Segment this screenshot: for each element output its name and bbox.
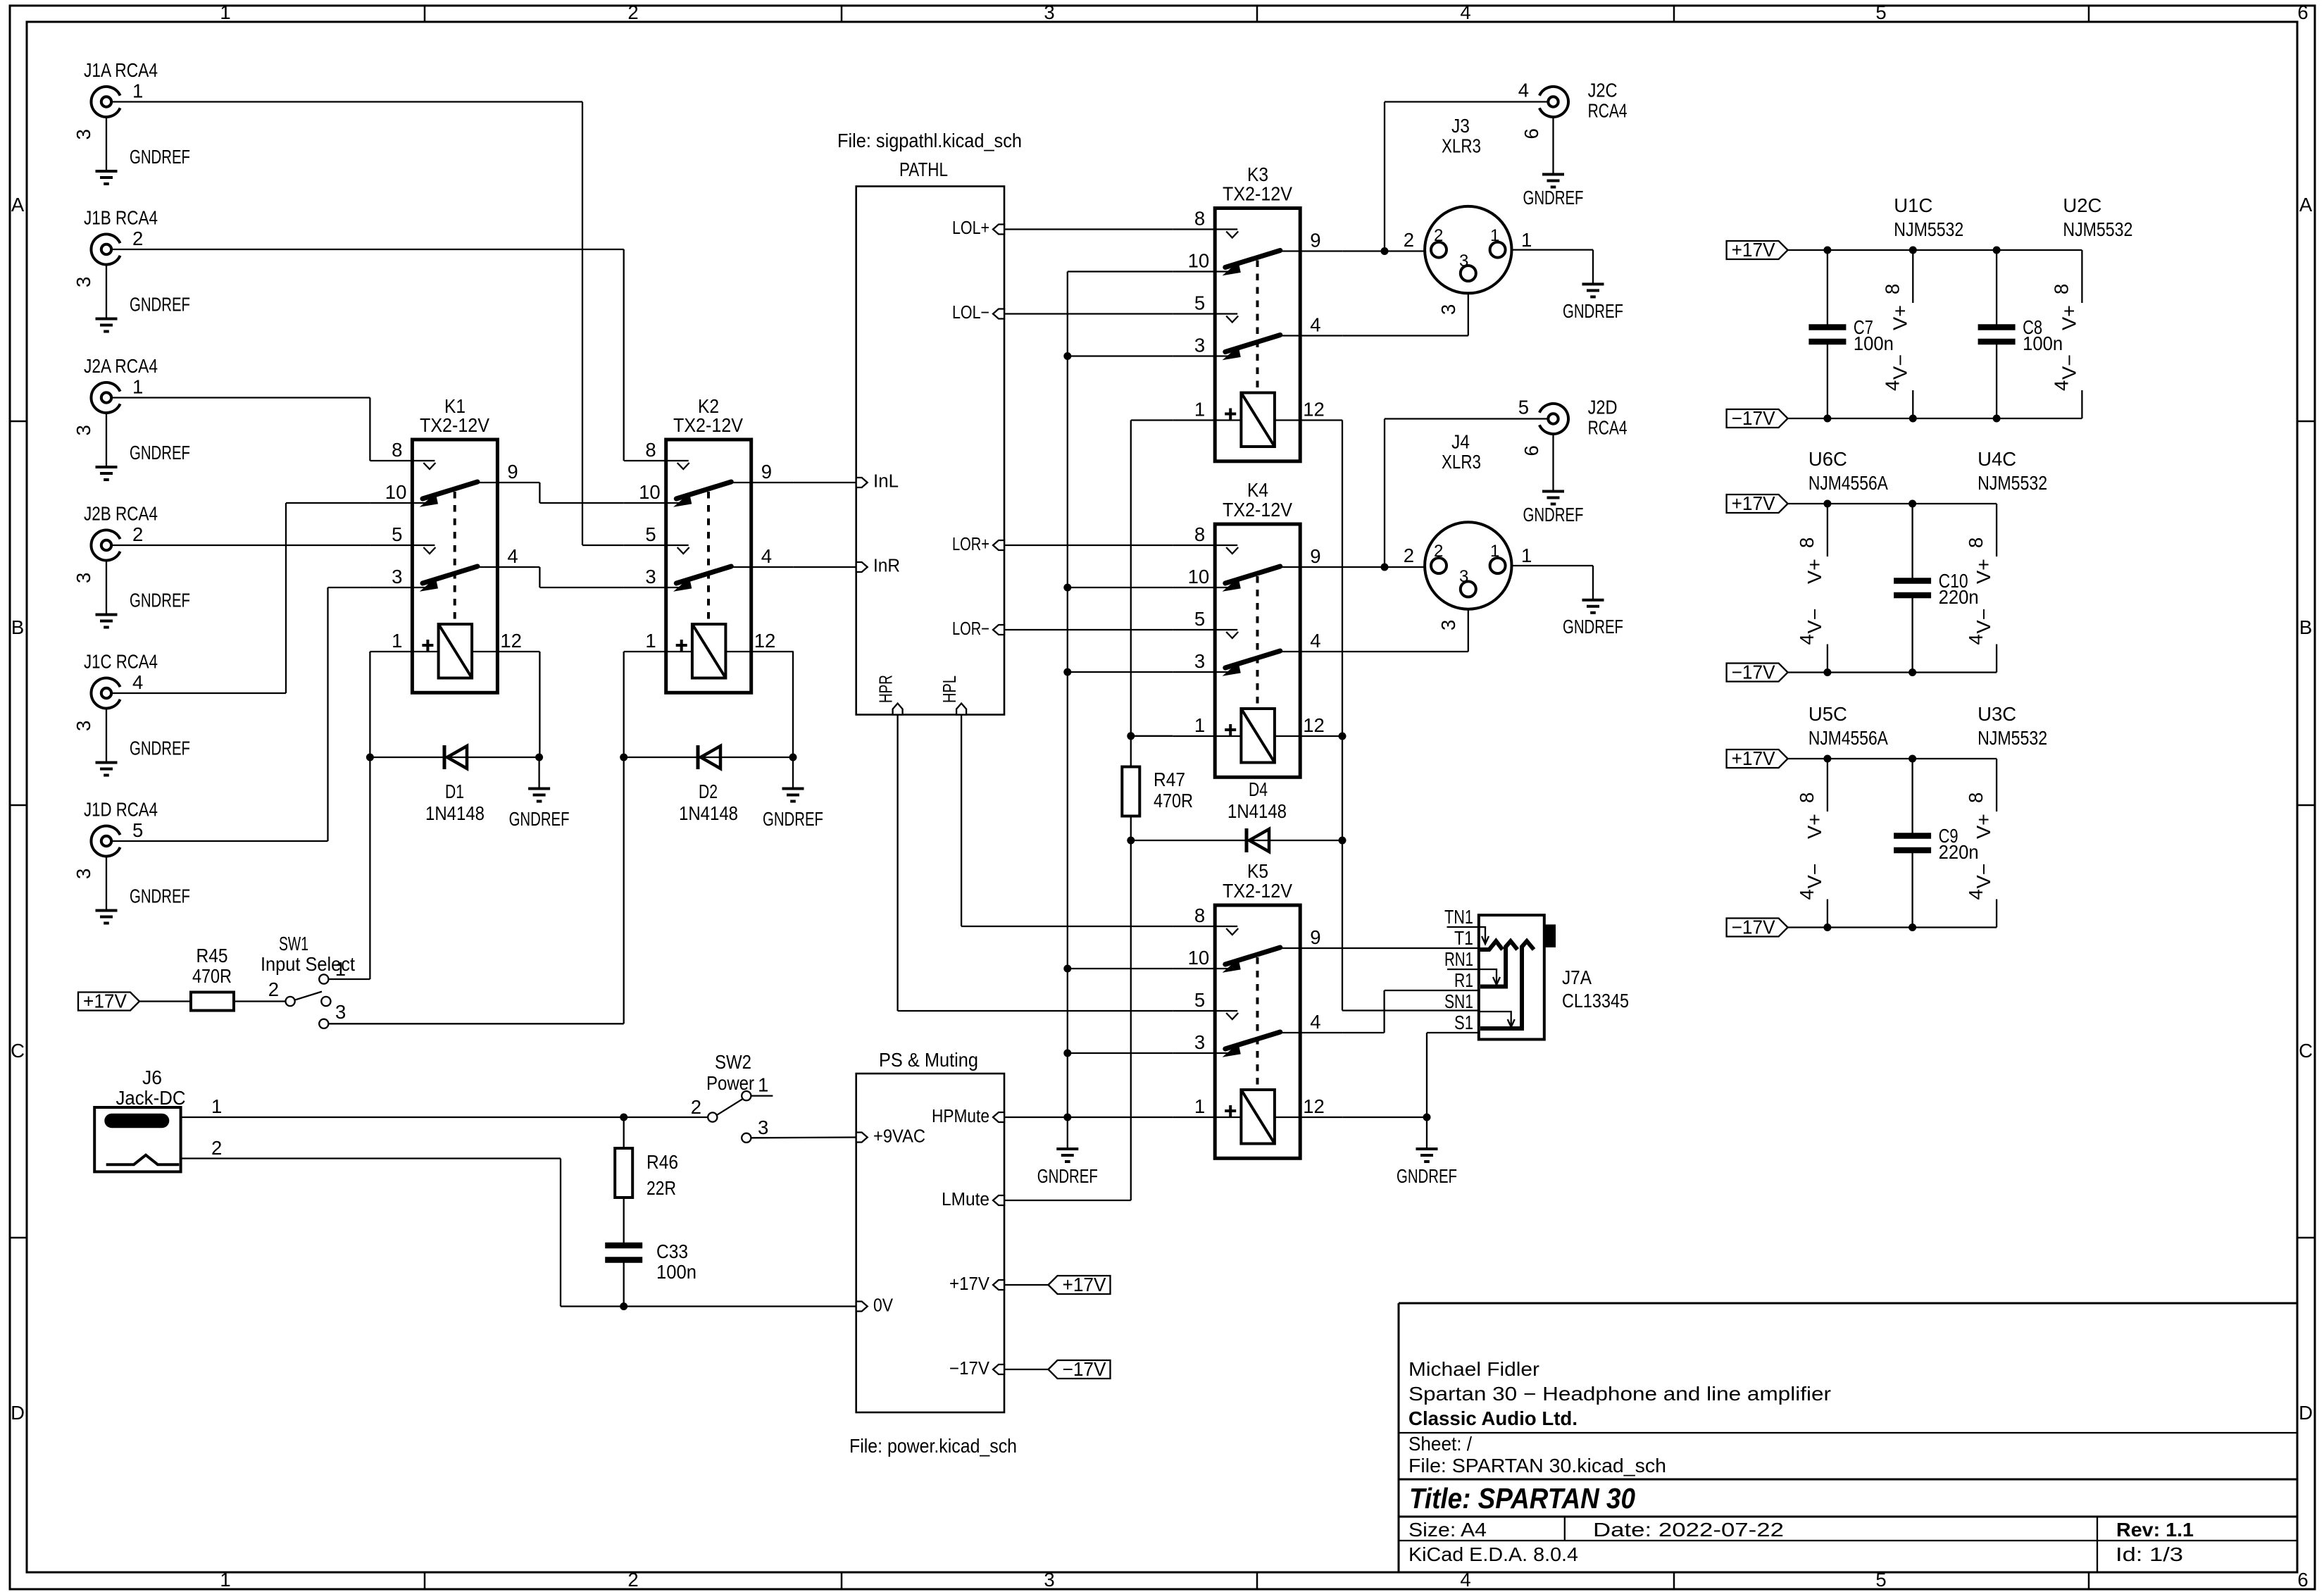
svg-text:4: 4 <box>1310 630 1320 652</box>
op-amp U4C power unit NJM5532 <box>1965 448 2047 673</box>
svg-text:GNDREF: GNDREF <box>763 808 823 830</box>
svg-text:4: 4 <box>507 545 518 567</box>
svg-text:2: 2 <box>627 1569 638 1591</box>
wire K3 pin1 to LMute vertical <box>1131 419 1173 421</box>
svg-text:+17V: +17V <box>1063 1274 1107 1295</box>
svg-text:2: 2 <box>1404 545 1414 566</box>
wire J2C pin4 to K3 pin9 net <box>1381 102 1549 256</box>
wire K1 pin9 to K2 pin10 <box>539 483 623 503</box>
svg-text:J1D RCA4: J1D RCA4 <box>84 799 158 821</box>
svg-text:V+: V+ <box>1973 559 1994 584</box>
svg-text:CL13345: CL13345 <box>1562 990 1629 1012</box>
svg-text:Date: 2022-07-22: Date: 2022-07-22 <box>1593 1519 1784 1541</box>
svg-text:LOR+: LOR+ <box>952 535 989 554</box>
svg-text:9: 9 <box>507 461 518 483</box>
svg-text:NJM4556A: NJM4556A <box>1808 472 1889 494</box>
svg-text:NJM4556A: NJM4556A <box>1808 727 1889 749</box>
svg-text:1: 1 <box>335 958 346 980</box>
svg-text:J2A RCA4: J2A RCA4 <box>84 355 158 377</box>
svg-text:TX2-12V: TX2-12V <box>420 414 490 436</box>
wire K2 pin12 to GNDREF <box>792 652 794 757</box>
svg-text:8: 8 <box>1965 537 1987 548</box>
svg-text:J1C RCA4: J1C RCA4 <box>84 651 158 673</box>
svg-text:3: 3 <box>392 566 402 587</box>
svg-text:Id: 1/3: Id: 1/3 <box>2116 1543 2183 1565</box>
svg-text:SW1: SW1 <box>279 933 308 954</box>
wire XLR J4 pin3 to K4 pin4 <box>1342 609 1468 652</box>
wire LOL+ to K3 pin8 <box>1004 228 1173 230</box>
svg-text:2: 2 <box>1434 226 1443 245</box>
svg-text:Classic Audio Ltd.: Classic Audio Ltd. <box>1408 1407 1578 1429</box>
svg-text:File: power.kicad_sch: File: power.kicad_sch <box>849 1435 1017 1457</box>
svg-text:2: 2 <box>1434 542 1443 561</box>
svg-text:R45: R45 <box>196 945 228 966</box>
relay K5 <box>1173 860 1342 1158</box>
wire K5 pin10 to mute bus <box>1068 968 1173 969</box>
svg-text:InR: InR <box>873 556 900 576</box>
svg-text:J1A RCA4: J1A RCA4 <box>84 59 158 81</box>
svg-text:4: 4 <box>761 545 772 567</box>
svg-text:D4: D4 <box>1249 778 1268 800</box>
svg-text:6: 6 <box>2297 1569 2308 1591</box>
svg-text:3: 3 <box>758 1117 768 1138</box>
wire J6 pin1 to SW2 pin2 <box>181 1114 708 1121</box>
svg-text:LMute: LMute <box>942 1190 989 1209</box>
ground GNDREF at mute bus <box>1037 1117 1098 1187</box>
svg-text:V−: V− <box>1973 609 1994 634</box>
svg-text:TX2-12V: TX2-12V <box>1223 880 1293 902</box>
svg-text:D1: D1 <box>445 781 464 802</box>
svg-text:3: 3 <box>1437 304 1459 315</box>
svg-text:1: 1 <box>645 630 656 652</box>
svg-text:8: 8 <box>1194 208 1205 230</box>
svg-text:U1C: U1C <box>1894 194 1932 216</box>
svg-text:3: 3 <box>73 573 94 583</box>
svg-text:3: 3 <box>645 566 656 587</box>
svg-text:NJM5532: NJM5532 <box>1894 218 1963 240</box>
svg-text:J2B RCA4: J2B RCA4 <box>84 503 158 525</box>
svg-text:2: 2 <box>132 523 143 545</box>
resistor R45 470R <box>139 945 286 1011</box>
net label RN1 <box>1444 948 1479 970</box>
svg-text:GNDREF: GNDREF <box>130 442 190 464</box>
svg-text:8: 8 <box>1796 537 1818 548</box>
svg-text:2: 2 <box>627 1 638 23</box>
op-amp U6C power unit NJM4556A <box>1796 448 1889 673</box>
svg-text:8: 8 <box>1194 523 1205 545</box>
net label S1 <box>1454 1012 1473 1033</box>
power flag -17V rail group 2 <box>1727 661 1788 683</box>
svg-text:2: 2 <box>211 1137 222 1159</box>
svg-text:5: 5 <box>1194 989 1205 1011</box>
svg-text:8: 8 <box>392 439 402 461</box>
svg-text:10: 10 <box>1188 250 1210 272</box>
RCA connector J1C <box>73 651 190 776</box>
wire HPL to K5 pin8 <box>961 715 1173 927</box>
svg-text:220n: 220n <box>1939 841 1979 863</box>
sheet pin LOL- <box>952 303 1004 323</box>
svg-text:470R: 470R <box>1154 790 1193 811</box>
svg-text:1N4148: 1N4148 <box>425 802 485 824</box>
wire K3 pin12 to K4 pin12 D4 and SN1 <box>1339 421 1479 1011</box>
svg-text:1: 1 <box>1194 714 1205 736</box>
svg-text:470R: 470R <box>192 965 232 987</box>
svg-text:GNDREF: GNDREF <box>130 885 190 907</box>
svg-text:−17V: −17V <box>1732 661 1776 683</box>
sheet pin LMute <box>942 1190 1004 1209</box>
svg-text:V+: V+ <box>1804 559 1825 584</box>
svg-text:R46: R46 <box>646 1151 678 1173</box>
svg-text:B: B <box>2299 616 2312 638</box>
svg-text:3: 3 <box>73 277 94 287</box>
svg-text:V+: V+ <box>1804 814 1825 839</box>
svg-text:1: 1 <box>1194 1095 1205 1117</box>
svg-text:TX2-12V: TX2-12V <box>673 414 744 436</box>
wire J2A pin1 to K1 pin8 <box>111 398 370 461</box>
capacitor C10 220n <box>1894 504 1979 673</box>
svg-text:8: 8 <box>1194 904 1205 926</box>
wire K3 pin9 to XLR J3 pin2 <box>1342 250 1425 251</box>
svg-text:3: 3 <box>335 1001 346 1023</box>
power flag -17V rail group 3 <box>1727 916 1788 938</box>
svg-text:R1: R1 <box>1454 969 1473 991</box>
wire LMute to coil vertical <box>1004 1200 1131 1201</box>
capacitor C33 100n <box>605 1198 696 1307</box>
svg-text:RCA4: RCA4 <box>1588 100 1628 122</box>
svg-text:NJM5532: NJM5532 <box>1978 472 2047 494</box>
svg-text:1: 1 <box>211 1095 222 1117</box>
svg-text:XLR3: XLR3 <box>1442 451 1481 473</box>
svg-text:2: 2 <box>132 228 143 249</box>
svg-text:100n: 100n <box>1854 332 1894 354</box>
svg-text:GNDREF: GNDREF <box>1037 1165 1098 1187</box>
wire jack S1 to GNDREF <box>1427 1033 1479 1117</box>
svg-text:TN1: TN1 <box>1444 906 1473 928</box>
sheet pin InL <box>856 472 899 492</box>
svg-text:XLR3: XLR3 <box>1442 135 1481 157</box>
wire K5 pin9 to jack T1 <box>1342 947 1479 949</box>
relay K1 <box>370 395 539 692</box>
svg-text:100n: 100n <box>656 1261 696 1283</box>
wire J2B pin1 to K1 pin5 <box>111 545 370 546</box>
wire K4 pin9 to XLR J4 pin2 <box>1342 566 1425 568</box>
svg-text:V−: V− <box>1804 609 1825 634</box>
ground GNDREF at J4 pin1 <box>1563 600 1623 638</box>
wire K1 pin12 to GNDREF <box>539 652 540 757</box>
svg-text:3: 3 <box>1194 335 1205 356</box>
svg-text:−17V: −17V <box>949 1359 989 1379</box>
diode D2 1N4148 <box>620 745 796 824</box>
svg-text:220n: 220n <box>1939 586 1979 608</box>
svg-text:GNDREF: GNDREF <box>1563 300 1623 322</box>
wire HPR to K5 pin5 <box>898 715 1173 1012</box>
wire K4 pin1 to LMute vertical <box>1131 735 1173 737</box>
switch SW2 Power <box>691 1051 773 1143</box>
relay K3 <box>1173 163 1342 461</box>
RCA connector J2A <box>73 355 190 480</box>
svg-text:GNDREF: GNDREF <box>130 146 190 168</box>
svg-text:1: 1 <box>132 80 143 102</box>
svg-text:3: 3 <box>1459 567 1468 586</box>
RCA connector J2C <box>1518 80 1628 209</box>
sheet pin LOL+ <box>952 218 1004 238</box>
svg-text:1: 1 <box>1194 399 1205 421</box>
svg-text:9: 9 <box>1310 926 1320 948</box>
wire K5 pin12 to GNDREF junction <box>1342 1114 1430 1150</box>
svg-text:C: C <box>11 1040 25 1062</box>
svg-text:1N4148: 1N4148 <box>1227 800 1287 822</box>
svg-text:J1B RCA4: J1B RCA4 <box>84 207 158 229</box>
sheet pin +17V output <box>949 1274 1004 1294</box>
svg-text:4: 4 <box>1460 1 1470 23</box>
svg-text:100n: 100n <box>2023 332 2063 354</box>
svg-text:LOL−: LOL− <box>952 303 989 323</box>
wire LOR+ to K4 pin8 <box>1004 545 1173 546</box>
svg-text:TX2-12V: TX2-12V <box>1223 183 1293 205</box>
svg-text:4: 4 <box>1310 1011 1320 1033</box>
wire +17V rail <box>1788 500 1997 508</box>
power flag +17V rail group 3 <box>1727 747 1788 769</box>
power flag +17V from PS <box>1004 1274 1111 1295</box>
wire K1 pin1 to SW1 pin1 <box>328 652 370 979</box>
op-amp U3C power unit NJM5532 <box>1965 703 2047 928</box>
svg-text:NJM5532: NJM5532 <box>1978 727 2047 749</box>
wire SW2 pin3 to +9VAC <box>751 1136 856 1138</box>
svg-text:V−: V− <box>1889 354 1911 380</box>
svg-text:22R: 22R <box>646 1177 676 1199</box>
hierarchical sheet PATHL sigpathl.kicad_sch <box>837 130 1022 715</box>
XLR connector J3 <box>1404 115 1532 315</box>
svg-text:V+: V+ <box>1973 814 1994 839</box>
svg-text:1: 1 <box>392 630 402 652</box>
wire -17V rail <box>1788 924 1997 931</box>
wire XLR J4 pin1 to GNDREF <box>1512 566 1594 600</box>
RCA connector J1B <box>73 207 190 332</box>
power flag -17V from PS <box>1004 1358 1111 1380</box>
svg-text:6: 6 <box>2297 1 2308 23</box>
wire +17V rail <box>1788 755 1997 763</box>
relay K2 <box>624 395 794 692</box>
title block <box>1399 1303 2297 1572</box>
wire K3 pin3 to mute bus <box>1068 355 1173 356</box>
sheet pin HPR <box>877 675 903 715</box>
svg-text:D2: D2 <box>699 781 718 802</box>
svg-text:12: 12 <box>500 630 522 652</box>
svg-text:5: 5 <box>132 819 143 841</box>
svg-text:5: 5 <box>1875 1 1886 23</box>
svg-text:GNDREF: GNDREF <box>130 590 190 611</box>
wire K1 pin4 to K2 pin3 <box>539 567 623 587</box>
svg-text:12: 12 <box>1303 399 1325 421</box>
svg-text:U5C: U5C <box>1808 703 1847 725</box>
svg-text:4: 4 <box>1310 314 1320 336</box>
svg-text:InL: InL <box>873 472 899 492</box>
resistor R46 22R <box>615 1117 678 1199</box>
svg-text:4: 4 <box>1796 889 1818 900</box>
svg-text:4: 4 <box>1965 889 1987 900</box>
svg-text:Power: Power <box>706 1072 754 1094</box>
sheet pin InR <box>856 556 900 576</box>
svg-text:GNDREF: GNDREF <box>1563 616 1623 638</box>
svg-text:−17V: −17V <box>1732 916 1776 938</box>
capacitor C8 100n <box>1978 250 2063 418</box>
sheet pin LOR+ <box>952 535 1004 554</box>
svg-text:B: B <box>11 616 24 638</box>
wire K2 pin4 to sheet pin InR <box>794 566 856 568</box>
svg-text:5: 5 <box>392 523 402 545</box>
op-amp U1C power unit NJM5532 <box>1881 194 1963 418</box>
svg-text:LOR−: LOR− <box>952 619 989 639</box>
svg-text:12: 12 <box>1303 1095 1325 1117</box>
svg-text:8: 8 <box>1965 792 1987 803</box>
svg-text:8: 8 <box>1881 284 1903 294</box>
ground GNDREF at J3 pin1 <box>1563 284 1623 322</box>
sheet pin -17V output <box>949 1359 1004 1379</box>
svg-text:1N4148: 1N4148 <box>679 802 738 824</box>
svg-text:Jack-DC: Jack-DC <box>116 1087 186 1109</box>
capacitor C7 100n <box>1808 250 1894 418</box>
svg-text:SN1: SN1 <box>1444 990 1473 1012</box>
svg-text:A: A <box>11 194 25 216</box>
svg-text:V+: V+ <box>1889 305 1911 330</box>
net label R1 <box>1454 969 1473 991</box>
power flag +17V at R45 <box>78 990 139 1012</box>
svg-text:J4: J4 <box>1451 431 1470 453</box>
svg-text:V+: V+ <box>2058 305 2080 330</box>
svg-text:KiCad E.D.A. 8.0.4: KiCad E.D.A. 8.0.4 <box>1408 1543 1578 1565</box>
svg-text:U4C: U4C <box>1978 448 2016 470</box>
svg-text:J2C: J2C <box>1588 80 1618 101</box>
wire J1B pin1 to K2 pin8 <box>111 249 624 461</box>
sheet pin 0V <box>856 1296 893 1316</box>
RCA connector J1A <box>73 59 190 184</box>
svg-text:V−: V− <box>1973 864 1994 889</box>
svg-text:12: 12 <box>754 630 776 652</box>
wire K5 pin3 to mute bus <box>1068 1052 1173 1054</box>
svg-text:5: 5 <box>1194 292 1205 314</box>
svg-text:HPL: HPL <box>940 676 960 703</box>
wire +17V rail <box>1788 247 2082 254</box>
svg-text:8: 8 <box>645 439 656 461</box>
wire K3 pin10 to mute bus <box>1068 270 1173 272</box>
svg-text:−17V: −17V <box>1063 1358 1107 1380</box>
svg-text:2: 2 <box>691 1096 701 1118</box>
op-amp U5C power unit NJM4556A <box>1796 703 1889 928</box>
svg-text:File: SPARTAN 30.kicad_sch: File: SPARTAN 30.kicad_sch <box>1408 1455 1666 1476</box>
svg-text:K4: K4 <box>1247 479 1268 501</box>
svg-text:TX2-12V: TX2-12V <box>1223 499 1293 521</box>
svg-text:D: D <box>11 1402 25 1424</box>
svg-text:3: 3 <box>1194 650 1205 672</box>
svg-text:Title: SPARTAN 30: Title: SPARTAN 30 <box>1409 1482 1635 1515</box>
svg-text:4: 4 <box>2050 380 2072 391</box>
wire K2 pin1 to SW1 pin3 <box>328 652 623 1024</box>
svg-text:8: 8 <box>2050 284 2072 294</box>
wire K5 pin4 to jack R1 <box>1342 990 1479 1033</box>
hierarchical sheet PS & Muting power.kicad_sch <box>849 1049 1017 1457</box>
svg-text:R47: R47 <box>1154 769 1185 790</box>
net label T1 <box>1454 927 1473 949</box>
ground GNDREF at jack <box>1397 1149 1457 1187</box>
svg-text:+17V: +17V <box>1732 492 1776 514</box>
wire J2D pin5 to K4 pin9 net <box>1381 419 1549 571</box>
svg-text:Sheet: /: Sheet: / <box>1408 1433 1472 1455</box>
svg-text:HPMute: HPMute <box>932 1107 989 1126</box>
svg-text:GNDREF: GNDREF <box>1397 1165 1457 1187</box>
svg-text:GNDREF: GNDREF <box>509 808 570 830</box>
svg-text:1: 1 <box>220 1569 230 1591</box>
wire K2 pin9 to sheet pin InL <box>794 482 856 483</box>
svg-text:9: 9 <box>1310 545 1320 567</box>
sheet pin HPMute <box>932 1107 1004 1126</box>
svg-text:K5: K5 <box>1247 860 1268 882</box>
svg-text:+17V: +17V <box>949 1274 989 1294</box>
wire J1A pin1 to K2 pin5 <box>111 102 624 546</box>
net label SN1 <box>1444 990 1473 1012</box>
svg-text:Spartan 30 − Headphone and lin: Spartan 30 − Headphone and line amplifie… <box>1408 1383 1831 1405</box>
svg-text:3: 3 <box>1044 1569 1054 1591</box>
wire J1C pin1 to K1 pin10 <box>111 503 370 693</box>
svg-text:SW2: SW2 <box>715 1051 751 1073</box>
svg-text:9: 9 <box>1310 230 1320 251</box>
coil drive vertical LMute net with resistor R47 <box>1127 421 1135 1201</box>
svg-text:Michael Fidler: Michael Fidler <box>1408 1358 1539 1380</box>
svg-text:2: 2 <box>268 978 279 1000</box>
svg-text:U2C: U2C <box>2063 194 2101 216</box>
svg-text:RCA4: RCA4 <box>1588 417 1628 439</box>
ground GNDREF at D1 <box>509 757 570 830</box>
svg-text:1: 1 <box>220 1 230 23</box>
svg-text:5: 5 <box>1518 397 1529 418</box>
headphone jack J7A CL13345 <box>1479 915 1629 1039</box>
svg-text:A: A <box>2299 194 2313 216</box>
svg-text:+9VAC: +9VAC <box>873 1127 925 1147</box>
svg-text:3: 3 <box>73 721 94 731</box>
svg-text:J3: J3 <box>1451 115 1470 137</box>
svg-text:3: 3 <box>1044 1 1054 23</box>
svg-text:GNDREF: GNDREF <box>130 294 190 316</box>
RCA connector J2B <box>73 503 190 628</box>
svg-text:GNDREF: GNDREF <box>1523 187 1584 209</box>
svg-text:GNDREF: GNDREF <box>1523 504 1584 526</box>
RCA connector J1D <box>73 799 190 924</box>
ground GNDREF at D2 <box>763 757 823 830</box>
svg-text:U3C: U3C <box>1978 703 2016 725</box>
svg-text:0V: 0V <box>873 1296 893 1316</box>
wire LOL- to K3 pin5 <box>1004 313 1173 314</box>
sheet pin +9VAC <box>856 1127 925 1147</box>
connector J6 Jack-DC <box>94 1066 222 1171</box>
svg-text:PS & Muting: PS & Muting <box>879 1049 978 1071</box>
svg-text:K3: K3 <box>1247 163 1268 185</box>
svg-text:File: sigpathl.kicad_sch: File: sigpathl.kicad_sch <box>837 130 1022 151</box>
svg-text:J7A: J7A <box>1562 966 1592 988</box>
sheet pin HPL <box>940 676 966 715</box>
svg-text:5: 5 <box>1194 608 1205 630</box>
svg-text:−17V: −17V <box>1732 407 1776 429</box>
wire J1D pin1 to K1 pin3 <box>111 587 370 841</box>
svg-text:+17V: +17V <box>1732 239 1776 261</box>
svg-text:RN1: RN1 <box>1444 948 1473 970</box>
wire K4 pin10 to mute bus <box>1068 587 1173 588</box>
power flag +17V rail group 2 <box>1727 492 1788 514</box>
svg-text:4: 4 <box>1518 80 1529 101</box>
svg-text:S1: S1 <box>1454 1012 1473 1033</box>
svg-text:6: 6 <box>1520 445 1542 456</box>
svg-text:3: 3 <box>73 129 94 139</box>
svg-text:5: 5 <box>645 523 656 545</box>
svg-text:4: 4 <box>132 671 143 693</box>
